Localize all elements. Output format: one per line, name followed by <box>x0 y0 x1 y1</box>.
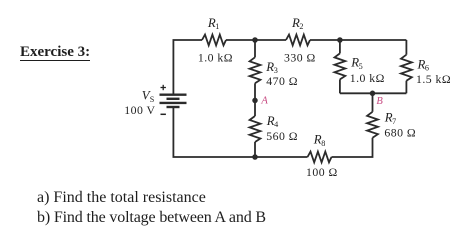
svg-text:8: 8 <box>321 139 325 148</box>
wire: R5 bottom lead <box>339 79 341 93</box>
wire: junction to R2 <box>255 39 286 41</box>
svg-text:5: 5 <box>359 62 363 71</box>
svg-text:A: A <box>260 96 268 107</box>
wire: node B to R7 <box>372 93 374 112</box>
svg-text:1.0 kΩ: 1.0 kΩ <box>350 71 385 85</box>
value label 100 Ohm (R8) <box>306 165 338 179</box>
resistor R7 <box>367 112 378 138</box>
label R3 <box>265 60 277 75</box>
label R5 <box>350 56 362 71</box>
value label 1.0 kOhm (R1) <box>198 51 233 65</box>
wire: R5 top lead <box>339 40 341 53</box>
label R6 <box>417 57 429 72</box>
svg-text:4: 4 <box>274 120 278 129</box>
junction node B dot <box>370 91 376 97</box>
title: Exercise 3 heading <box>20 44 90 61</box>
svg-text:330 Ω: 330 Ω <box>284 50 316 64</box>
wire: R3 to node A <box>254 83 256 100</box>
resistor R2 <box>286 35 310 46</box>
svg-text:560 Ω: 560 Ω <box>266 129 298 143</box>
wire: R1 to junction of R3 branch <box>226 39 255 41</box>
svg-text:B: B <box>376 96 383 107</box>
wire: R3 top lead <box>254 40 256 57</box>
junction node: top of parallel R5-R6 section <box>337 37 343 43</box>
node B label <box>376 96 383 107</box>
prompt line a <box>37 189 206 207</box>
svg-text:1.5 kΩ: 1.5 kΩ <box>416 72 451 86</box>
node A label <box>260 96 268 107</box>
resistor R6 <box>401 55 412 81</box>
wire: R2 to junction of R5/R6 section <box>310 39 340 41</box>
value label 680 Ohm (R7) <box>384 125 416 139</box>
svg-text:680 Ω: 680 Ω <box>384 125 416 139</box>
label R1 <box>207 16 219 31</box>
wire: battery - down to bottom rail, left segment to R8 <box>173 108 307 157</box>
value label 330 Ohm (R2) <box>284 50 316 64</box>
node A dot <box>252 98 258 104</box>
label R8 <box>313 133 325 148</box>
battery voltage source VS plates <box>160 95 187 107</box>
value label 1.5 kOhm (R6) <box>416 72 451 86</box>
wire: R6 top lead from top-right corner <box>405 40 407 55</box>
resistor R5 <box>335 53 346 79</box>
svg-text:470 Ω: 470 Ω <box>266 74 298 88</box>
wire: top rail to top-right corner <box>340 39 407 41</box>
label R2 <box>291 16 303 31</box>
label VS <box>142 89 155 104</box>
svg-text:2: 2 <box>299 22 303 31</box>
wire: R7 bottom lead and bottom rail right segment <box>332 138 373 157</box>
value label 470 Ohm (R3) <box>266 74 298 88</box>
resistor R3 <box>250 57 261 83</box>
svg-text:1: 1 <box>215 22 219 31</box>
label 100 V source value <box>124 103 155 117</box>
wire: R4 bottom lead <box>254 142 256 157</box>
wire: bottom of parallel R5-R6 section <box>340 92 407 94</box>
value label 560 Ohm (R4) <box>266 129 298 143</box>
value label 1.0 kOhm (R5) <box>350 71 385 85</box>
prompt line b <box>37 209 266 227</box>
wire: node A to R4 <box>254 100 256 116</box>
junction node: top of R3 branch <box>252 37 258 43</box>
label R7 <box>384 111 396 126</box>
resistor R8 <box>308 152 332 163</box>
resistor R1 <box>202 35 226 46</box>
junction node: R4 at bottom rail <box>252 154 258 160</box>
svg-text:1.0 kΩ: 1.0 kΩ <box>198 51 233 65</box>
label R4 <box>266 114 278 129</box>
resistor R4 <box>250 116 261 142</box>
wire: R6 bottom lead <box>405 81 407 94</box>
battery minus polarity mark <box>161 113 166 115</box>
battery plus polarity mark <box>161 85 166 90</box>
svg-text:100 Ω: 100 Ω <box>306 165 338 179</box>
svg-text:100 V: 100 V <box>124 103 155 117</box>
wire: left rail up from battery + and top-left corner to R1 <box>173 40 202 94</box>
